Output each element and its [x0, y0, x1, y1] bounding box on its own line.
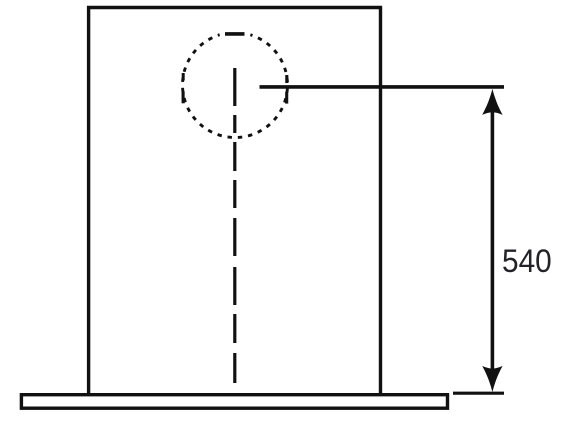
svg-text:540: 540 [502, 243, 552, 280]
